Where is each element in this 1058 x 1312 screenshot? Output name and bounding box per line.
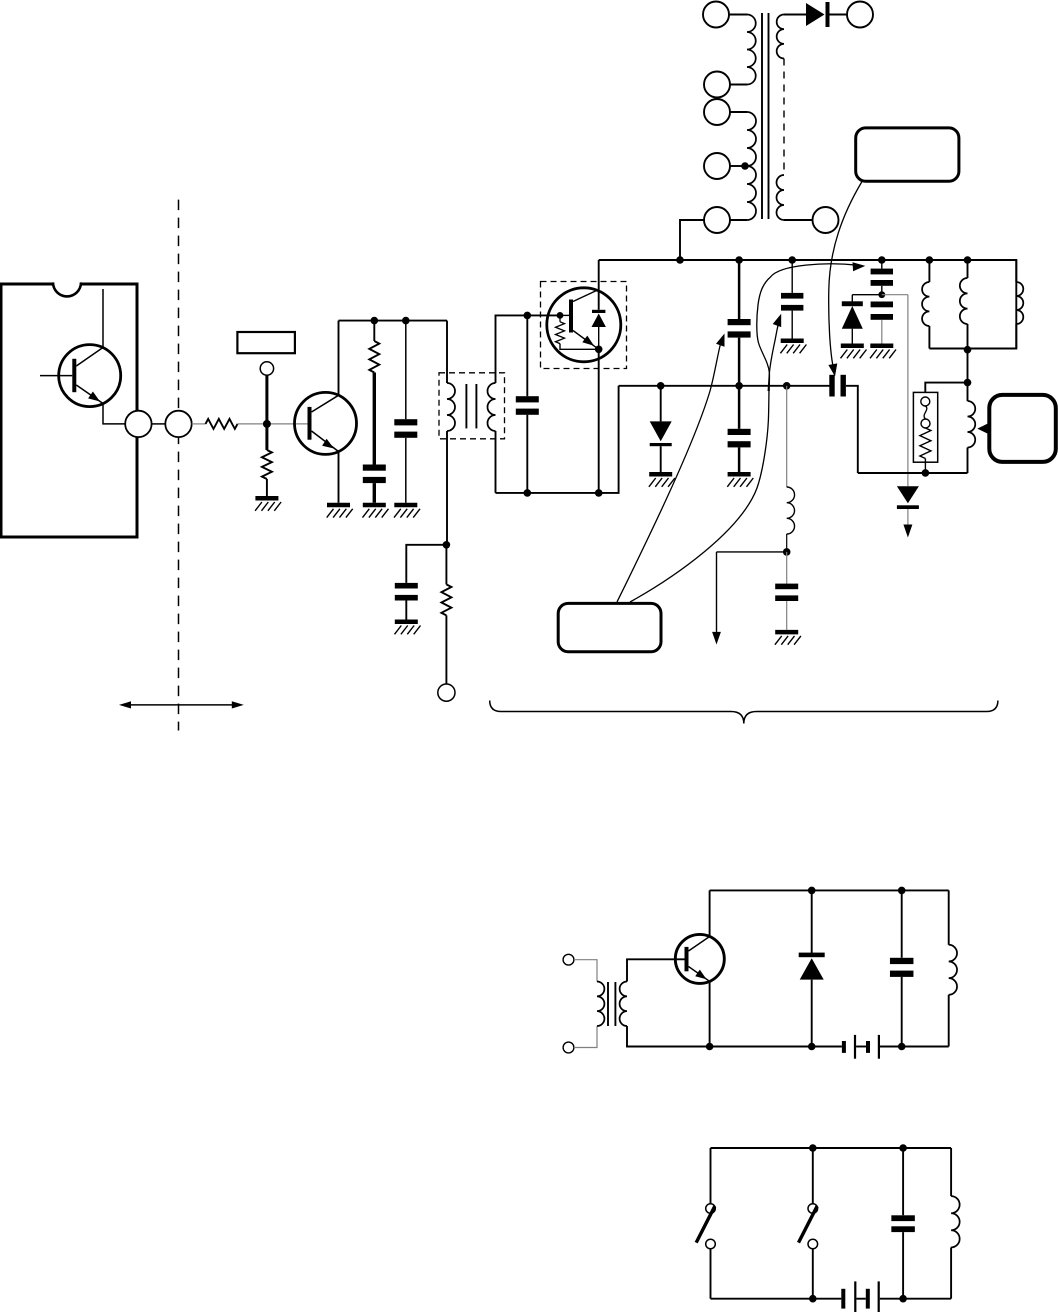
transistor Q2 emitter lead with arrow	[312, 431, 339, 452]
wire T2 secondary bottom down	[495, 431, 497, 493]
wire Q2 emitter to ground	[338, 452, 340, 503]
transformer T1 primary terminal pin 3	[704, 99, 730, 125]
wire D3 to ground	[660, 446, 662, 472]
transistor Q3 base bar	[569, 300, 573, 333]
wire C2 to ground	[405, 438, 407, 503]
dashed boundary line (board edge)	[178, 200, 180, 731]
node on rail at C8 chain	[878, 256, 886, 264]
wire mid rail (B+ feed)	[619, 385, 830, 387]
diode D5 (damper)	[799, 953, 825, 958]
battery B1	[842, 1041, 846, 1053]
node bottom rail at Q4	[706, 1043, 714, 1051]
capacitor C3	[516, 396, 539, 402]
transformer T1 secondary winding continuation (dashed)	[783, 59, 785, 176]
inductor L5	[787, 487, 795, 534]
wire secondary top to diode	[784, 14, 806, 16]
double-headed arrow across boundary	[128, 704, 235, 706]
node width-coil tap	[964, 379, 972, 387]
node bottom rail at D5	[808, 1043, 816, 1051]
connector pin circle on boundary	[165, 411, 191, 437]
wire bottom return	[496, 386, 619, 493]
transformer T1 primary winding middle section	[747, 112, 756, 166]
wire C10 right side down	[846, 386, 858, 473]
resistor R2 (base to ground)	[262, 450, 272, 479]
transformer T3 primary winding	[597, 982, 604, 1027]
transistor Q2 collector lead	[312, 395, 339, 412]
transistor Q1 collector lead	[76, 289, 103, 366]
wire ZD1 to ground	[851, 329, 853, 344]
resistor R3 (collector load)	[369, 341, 379, 373]
transistor Q2 (circle)	[295, 392, 357, 454]
transformer T1 core	[761, 13, 763, 219]
wire C13 to bottom rail	[902, 1232, 904, 1299]
callout branch to capacitor C8	[757, 264, 858, 391]
node mid rail at D3	[657, 382, 665, 390]
wire rail to capacitor C7	[791, 260, 793, 293]
wire Q3 collector to rail / through diode	[598, 260, 600, 310]
wire D4 continuation	[907, 509, 909, 525]
node Q3 emitter	[595, 346, 603, 354]
node between C8 and C9	[878, 291, 885, 298]
transformer T2 core	[465, 384, 467, 428]
node rail at C2	[402, 317, 410, 325]
transistor Q4 (circle)	[675, 934, 724, 983]
wire mid rail to diode D3	[660, 386, 662, 422]
wire D5 to bottom rail	[811, 980, 813, 1047]
inductor L6 (deflection yoke)	[948, 890, 950, 944]
capacitor C1	[363, 465, 386, 471]
capacitor C6	[728, 429, 751, 435]
capacitor C13	[891, 1215, 915, 1221]
resistor R5	[441, 584, 451, 615]
posistor PR1 resistor element	[920, 428, 931, 459]
transistor Q3 emitter lead with arrow	[573, 331, 599, 350]
label box (right)	[989, 395, 1056, 462]
node bottom rail at SW2	[809, 1295, 817, 1303]
node top rail at SW2	[809, 1144, 817, 1152]
resistor R4 (internal base-emitter)	[559, 315, 561, 321]
node mid rail at L5	[783, 382, 791, 390]
ground under C11	[775, 630, 798, 635]
battery B2	[841, 1289, 845, 1309]
wire node to zener	[852, 294, 882, 296]
callout leader stem (forked)	[630, 388, 769, 602]
transistor Q3 base node	[557, 312, 564, 319]
ground under R2	[255, 496, 278, 501]
brace (horizontal output stage group)	[490, 701, 998, 724]
wire Q4 collector to top rail	[709, 890, 711, 936]
wire diode to terminal	[830, 14, 848, 16]
callout curve from top label box to coupling capacitor	[829, 182, 862, 368]
transistor Q1 base bar	[72, 359, 76, 392]
wire HV branch (thin)	[907, 295, 909, 487]
capacitor C2	[394, 419, 417, 425]
ground under D3	[649, 472, 672, 477]
transistor Q3 package box (dashed)	[541, 282, 627, 369]
transistor Q3 collector lead	[573, 290, 599, 302]
IC U1 outline	[1, 284, 137, 537]
node at C3 top	[524, 312, 532, 320]
wire mid rail node down (thin)	[786, 386, 788, 487]
transformer T1 primary terminal pin 5	[704, 207, 730, 233]
transformer T1 primary terminal pin 1	[703, 2, 729, 28]
wire IC pin to connector pin	[152, 423, 166, 425]
node top rail at C12	[898, 887, 906, 895]
wire C6 to ground	[738, 447, 741, 472]
posistor PR1 upper lamp circle	[921, 397, 930, 406]
transformer T1 primary terminal pin 4 (tap)	[704, 153, 730, 179]
arrow continuation down (left)	[712, 632, 721, 645]
wire tap to posistor box	[925, 383, 967, 393]
switch SW1	[710, 1148, 712, 1204]
IC output pin circle	[125, 411, 151, 437]
node bottom rail at C12	[898, 1043, 906, 1051]
wire rail to capacitor C5	[738, 260, 741, 319]
diode D4	[897, 486, 919, 503]
wire rail corner down to T2 primary	[446, 321, 448, 383]
wire C4 to ground	[405, 601, 407, 620]
callout branch to capacitor C7	[768, 318, 780, 391]
wire rail to resistor R3	[373, 321, 375, 341]
inductor L4 (linearity coil)	[967, 383, 969, 401]
capacitor C4	[395, 583, 418, 589]
wire C9 to ground	[881, 320, 883, 344]
node bottom rail at C13	[899, 1295, 907, 1303]
input terminal circle B	[563, 1042, 574, 1053]
wire C11 to ground (thin)	[786, 601, 788, 630]
wire rail to capacitor C12	[901, 890, 903, 957]
transistor Q4 base bar	[685, 947, 689, 971]
capacitor C9	[871, 302, 893, 308]
switch SW2	[812, 1148, 814, 1204]
wire node to HV line	[882, 294, 908, 296]
wire top rail (sub-circuit 1)	[710, 889, 949, 891]
inductor L3	[1015, 260, 1017, 282]
node on rail at C5 chain	[735, 256, 743, 264]
wire pin5 to supply rail	[680, 220, 704, 260]
ground under ZD1	[841, 343, 864, 348]
arrowhead from label box to L4	[977, 424, 987, 434]
node on rail at coil L2	[964, 256, 972, 264]
wire connector to resistor R1	[192, 423, 206, 425]
wire rail to diode D5	[811, 890, 813, 953]
transformer T2 secondary winding	[488, 383, 496, 431]
posistor PR1 box	[913, 392, 937, 462]
wire bottom-right return	[858, 472, 968, 474]
ground under C2	[394, 503, 417, 508]
ground under C1	[363, 503, 386, 508]
transformer T2 primary winding	[447, 383, 455, 431]
ground under C4	[395, 619, 418, 624]
transformer T2 shield box (dashed)	[439, 373, 505, 439]
wire C7 to ground	[791, 311, 793, 339]
wire T2 secondary top to Q3 base	[496, 315, 561, 383]
wire top supply rail	[599, 260, 1017, 349]
ground under C6	[728, 472, 751, 477]
callout curve to capacitor C5	[617, 340, 722, 602]
arrow continuation down	[903, 525, 912, 538]
wire Q2 collector rail	[339, 320, 448, 322]
transformer T1 secondary winding upper section	[777, 15, 784, 59]
capacitor C11	[775, 584, 798, 590]
transformer T1 secondary terminal (HV)	[847, 2, 873, 28]
IC U1 index notch	[53, 282, 81, 296]
diode D2 (damper) triangle	[592, 314, 606, 328]
posistor PR1 squiggle	[924, 406, 927, 419]
wire R5 to terminal	[445, 615, 447, 684]
inductor L7	[950, 1148, 952, 1196]
node T2 primary return	[443, 541, 451, 549]
node PR1 bottom	[922, 469, 930, 477]
transformer T1 primary winding upper section	[747, 15, 756, 85]
wire Q4 emitter to bottom rail	[709, 981, 711, 1046]
wire node to resistor R5	[445, 545, 447, 585]
wire C1 to ground	[373, 483, 376, 503]
ground under C7	[781, 338, 804, 343]
capacitor C7	[781, 293, 803, 299]
input terminal circle A	[563, 954, 574, 965]
wire Q1 emitter to output pin	[103, 404, 125, 424]
label box (bottom)	[558, 603, 661, 651]
node on rail at C7 chain	[788, 256, 796, 264]
wire T3 secondary bottom to rail	[627, 1026, 710, 1047]
terminal circle under R5	[438, 684, 455, 701]
wire Q3 emitter down to return	[598, 349, 600, 493]
wire Q2 collector up to rail	[338, 321, 340, 396]
node coils bottom join	[964, 346, 972, 354]
capacitor C8	[871, 269, 893, 275]
wire L1 bottom join	[929, 348, 967, 350]
wire C3 to bottom wire	[526, 415, 528, 493]
transformer T3 core	[607, 982, 609, 1026]
transformer T1 primary winding lower section	[747, 166, 756, 220]
wire T2 primary bottom down	[446, 431, 448, 545]
inductor L2	[967, 260, 969, 278]
wire C8 to node	[881, 286, 883, 295]
node rail at R3	[371, 317, 379, 325]
wire R4 to emitter node	[560, 344, 599, 350]
wire base node to bar	[560, 314, 569, 316]
wire R2 to ground	[266, 479, 268, 496]
posistor PR1 lower lamp circle	[921, 419, 930, 428]
transistor Q1 base lead	[40, 375, 72, 377]
transformer T3 secondary winding	[620, 982, 627, 1027]
wire C5 to mid rail	[738, 338, 741, 386]
test point circle	[260, 362, 273, 375]
resistor R1 (series base)	[206, 419, 238, 429]
node on rail at pin5 drop	[676, 256, 684, 264]
wire rail to capacitor C8	[881, 260, 883, 269]
inductor L1	[928, 260, 930, 282]
node mid rail at C5	[735, 382, 743, 390]
transistor Q1 emitter lead with arrow	[76, 385, 103, 404]
capacitor C12	[890, 958, 914, 964]
transistor Q3 (circle)	[547, 288, 621, 362]
wire rail to capacitor C2	[405, 321, 407, 420]
diode D2 (damper) cathode bar	[592, 310, 605, 313]
label box (top)	[856, 128, 959, 181]
wire T3 secondary top to Q4 base	[627, 959, 687, 981]
wire bottom rail (sub-circuit 2)	[711, 1298, 842, 1300]
wire mid rail to capacitor C6	[738, 386, 741, 429]
ground under Q2 emitter	[327, 503, 350, 508]
diode D1 (EHT rectifier)	[806, 3, 825, 26]
zener diode ZD1	[851, 295, 853, 302]
ground under C9	[870, 343, 893, 348]
node L5 bottom	[783, 548, 791, 556]
transformer T1 secondary winding lower section	[777, 175, 784, 220]
wire top rail (sub-circuit 2)	[711, 1147, 952, 1149]
wire C12 to bottom rail	[901, 977, 903, 1047]
wire rail to capacitor C13	[902, 1148, 904, 1215]
wire node to capacitor C11 (thin)	[786, 552, 788, 584]
node top rail at D5	[808, 887, 816, 895]
node base of Q2	[263, 420, 271, 428]
transistor Q4 collector lead	[689, 937, 710, 952]
transistor Q4 emitter lead with arrow	[689, 967, 710, 982]
transistor Q1 inside IC (circle)	[59, 345, 121, 407]
wire node to capacitor C4	[406, 545, 446, 583]
wire bottom rail (sub-circuit 1)	[627, 1046, 842, 1048]
wire input B to T3 primary	[574, 1026, 597, 1048]
capacitor C10 (S-correction, series)	[829, 375, 834, 397]
wire secondary bottom	[784, 219, 813, 221]
wire R3 to capacitor C1	[373, 373, 376, 465]
capacitor C5	[728, 319, 751, 325]
node top rail at C13	[899, 1144, 907, 1152]
wire node to test point	[265, 375, 268, 450]
transformer T1 secondary lower terminal	[813, 207, 839, 233]
wire node to down-arrow	[717, 551, 787, 553]
diode D3	[650, 421, 672, 441]
wire input A to T3 primary	[574, 960, 597, 982]
wire R1 to base node	[238, 423, 310, 425]
transistor Q2 base bar	[308, 407, 312, 440]
node C3 bottom	[524, 489, 532, 497]
wire node to capacitor C3	[526, 315, 528, 396]
label box (small, above test point)	[237, 332, 295, 353]
node emitter return	[595, 489, 603, 497]
node on rail at coil L1	[926, 256, 934, 264]
wire PR1 to bottom	[924, 459, 926, 473]
transformer T1 primary terminal pin 2	[704, 72, 730, 98]
